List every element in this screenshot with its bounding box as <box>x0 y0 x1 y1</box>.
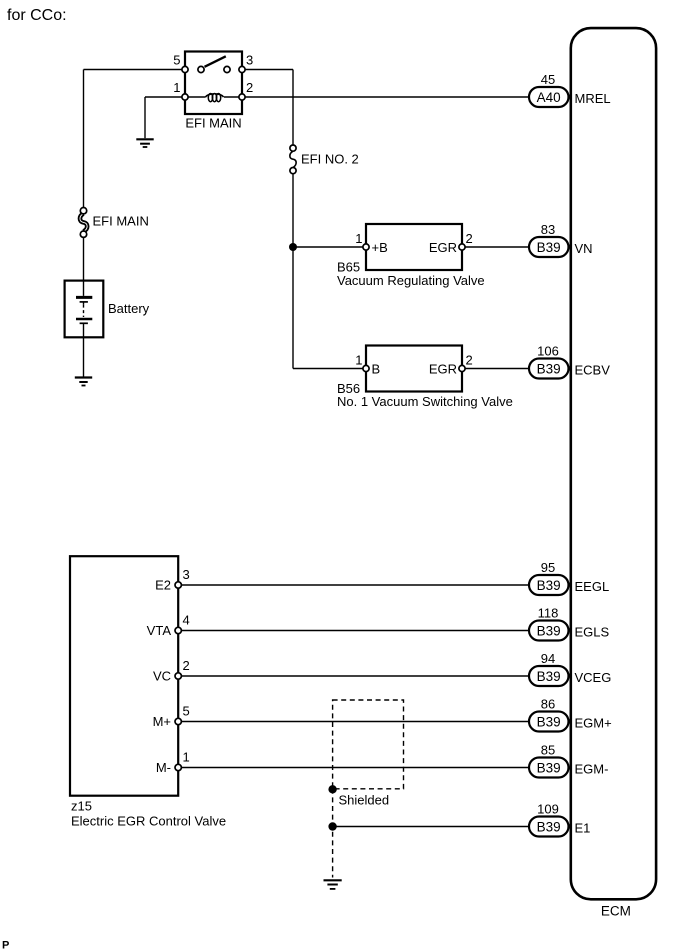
svg-text:118: 118 <box>538 606 559 621</box>
svg-text:B39: B39 <box>537 578 561 593</box>
svg-text:P: P <box>2 940 9 951</box>
svg-text:4: 4 <box>183 613 190 628</box>
svg-text:3: 3 <box>183 567 190 582</box>
svg-text:86: 86 <box>541 697 555 712</box>
svg-text:VN: VN <box>575 241 593 256</box>
svg-text:z15: z15 <box>71 799 92 814</box>
svg-text:83: 83 <box>541 222 555 237</box>
svg-text:Electric EGR Control Valve: Electric EGR Control Valve <box>71 814 226 829</box>
svg-text:EGM+: EGM+ <box>575 716 612 731</box>
svg-text:5: 5 <box>173 53 180 68</box>
svg-text:VC: VC <box>153 669 171 684</box>
svg-text:EGLS: EGLS <box>575 625 610 640</box>
svg-text:B39: B39 <box>537 240 561 255</box>
svg-text:ECM: ECM <box>601 904 631 919</box>
svg-text:VCEG: VCEG <box>575 670 612 685</box>
svg-text:B39: B39 <box>537 715 561 730</box>
svg-text:1: 1 <box>173 80 180 95</box>
svg-text:1: 1 <box>355 353 362 368</box>
svg-text:95: 95 <box>541 560 555 575</box>
svg-text:B: B <box>372 362 381 377</box>
svg-text:B39: B39 <box>537 820 561 835</box>
svg-text:EFI MAIN: EFI MAIN <box>93 214 149 229</box>
svg-text:for CCo:: for CCo: <box>7 7 67 24</box>
svg-text:No. 1 Vacuum Switching Valve: No. 1 Vacuum Switching Valve <box>337 394 513 409</box>
svg-text:2: 2 <box>466 231 473 246</box>
svg-text:2: 2 <box>246 80 253 95</box>
svg-text:+B: +B <box>372 240 388 255</box>
svg-text:Battery: Battery <box>108 301 150 316</box>
svg-text:Vacuum Regulating Valve: Vacuum Regulating Valve <box>337 273 485 288</box>
svg-text:E1: E1 <box>575 821 591 836</box>
svg-text:A40: A40 <box>537 90 561 105</box>
svg-text:EFI MAIN: EFI MAIN <box>185 116 241 131</box>
svg-text:Shielded: Shielded <box>339 793 390 808</box>
svg-text:EGR: EGR <box>429 240 457 255</box>
svg-text:94: 94 <box>541 651 555 666</box>
svg-text:VTA: VTA <box>147 623 172 638</box>
svg-text:ECBV: ECBV <box>575 363 611 378</box>
svg-text:1: 1 <box>183 750 190 765</box>
svg-text:B39: B39 <box>537 624 561 639</box>
svg-text:2: 2 <box>183 658 190 673</box>
svg-text:EGM-: EGM- <box>575 762 609 777</box>
svg-text:M-: M- <box>156 760 171 775</box>
svg-text:106: 106 <box>537 344 559 359</box>
svg-text:EEGL: EEGL <box>575 579 610 594</box>
svg-text:EGR: EGR <box>429 362 457 377</box>
svg-text:5: 5 <box>183 704 190 719</box>
svg-text:3: 3 <box>246 53 253 68</box>
svg-text:B39: B39 <box>537 761 561 776</box>
svg-text:85: 85 <box>541 743 555 758</box>
svg-text:109: 109 <box>537 802 559 817</box>
svg-text:2: 2 <box>466 353 473 368</box>
svg-text:45: 45 <box>541 72 555 87</box>
svg-text:E2: E2 <box>155 578 171 593</box>
svg-text:B39: B39 <box>537 669 561 684</box>
svg-text:M+: M+ <box>153 714 171 729</box>
svg-text:MREL: MREL <box>575 91 611 106</box>
svg-text:EFI NO. 2: EFI NO. 2 <box>301 152 359 167</box>
svg-text:1: 1 <box>355 231 362 246</box>
svg-text:B39: B39 <box>537 362 561 377</box>
